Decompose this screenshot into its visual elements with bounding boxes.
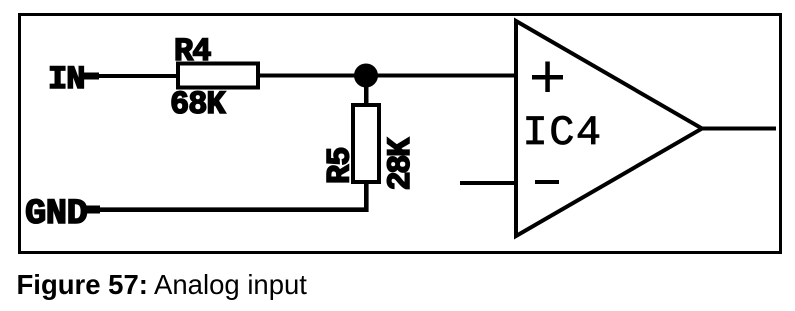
svg-text:Figure 57: Analog input: Figure 57: Analog input xyxy=(17,269,308,300)
op-amp + input marker xyxy=(532,62,563,93)
pin stub at IN xyxy=(83,73,99,80)
schematic border frame xyxy=(20,15,781,253)
wire IN to R4 xyxy=(96,74,179,78)
junction node dot xyxy=(354,64,378,88)
svg-text:GND: GND xyxy=(25,193,87,234)
op-amp IC4 triangle xyxy=(516,21,702,236)
op-amp output wire xyxy=(700,127,776,131)
wire dot to R5 xyxy=(364,75,369,107)
svg-text:IC4: IC4 xyxy=(523,109,603,157)
svg-text:R5: R5 xyxy=(322,148,359,184)
wire stub to op-amp - input xyxy=(460,181,518,185)
pin stub at GND xyxy=(84,206,100,214)
wire R5 to GND wire corner xyxy=(98,183,366,210)
svg-text:28K: 28K xyxy=(382,137,419,191)
resistor R4 xyxy=(178,64,258,88)
svg-text:R4: R4 xyxy=(174,33,211,70)
svg-text:IN: IN xyxy=(48,61,84,98)
resistor R5 xyxy=(353,105,379,182)
op-amp - input marker xyxy=(535,180,559,184)
wire R4 to op-amp + input xyxy=(258,74,518,78)
svg-text:68K: 68K xyxy=(170,86,226,123)
